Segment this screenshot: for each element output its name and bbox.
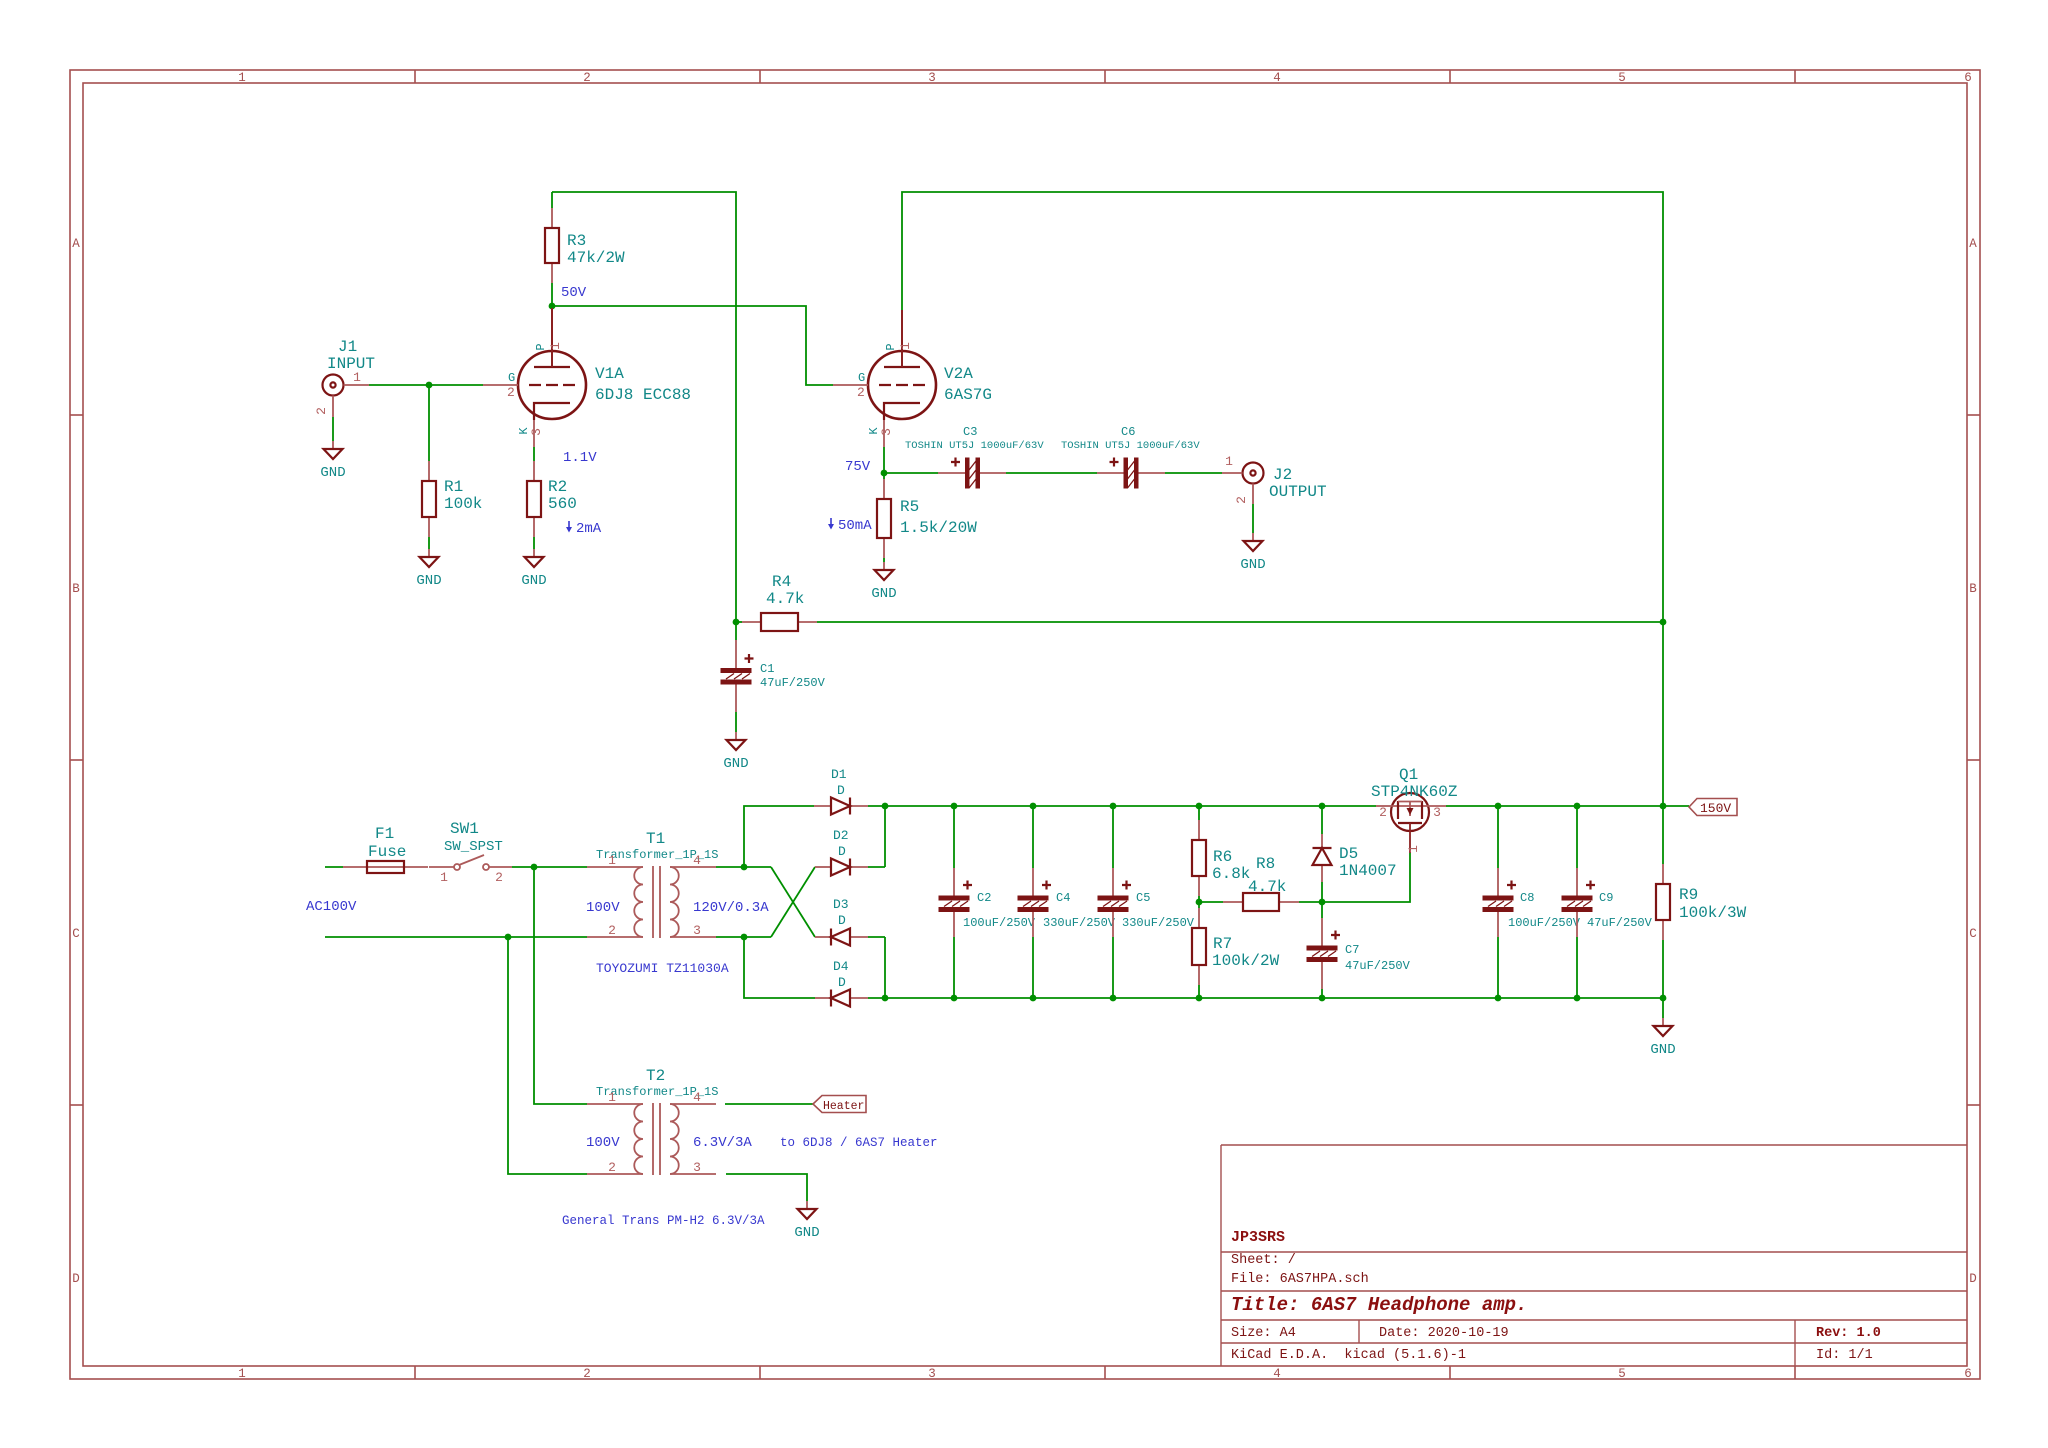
svg-text:5: 5	[1618, 71, 1626, 85]
resistor R9	[1656, 864, 1747, 940]
wire bridge diagonal b	[771, 867, 815, 937]
svg-text:4: 4	[1273, 1367, 1281, 1381]
triode V1A	[483, 308, 691, 447]
resistor R6	[1192, 820, 1250, 896]
capacitor C3	[905, 425, 1044, 489]
capacitor C7	[1307, 918, 1411, 989]
current 2mA annotation	[566, 521, 602, 537]
ground GND C1	[723, 732, 748, 772]
wire AC to T2 primary	[534, 867, 587, 1104]
wire gnd bottom rail	[885, 997, 1663, 999]
svg-text:R7: R7	[1213, 935, 1232, 953]
junction 50V node	[549, 303, 556, 310]
frame column labels bottom	[238, 1367, 1972, 1381]
svg-text:Sheet: /: Sheet: /	[1231, 1253, 1296, 1268]
svg-text:C: C	[1969, 927, 1977, 941]
capacitor C9	[1562, 868, 1653, 937]
svg-text:120V/0.3A: 120V/0.3A	[693, 900, 769, 916]
frame column labels top	[238, 71, 1972, 85]
wire C4 pins	[1032, 806, 1034, 998]
svg-text:100V: 100V	[586, 900, 620, 916]
capacitor C1	[721, 640, 826, 712]
svg-text:J2: J2	[1273, 466, 1292, 484]
frame column ticks bottom	[415, 1366, 1795, 1379]
wire gate node to Q1	[1322, 853, 1410, 902]
junction R7 bottom	[1196, 995, 1203, 1002]
svg-text:SW_SPST: SW_SPST	[444, 839, 503, 855]
svg-text:GND: GND	[416, 573, 441, 589]
wire grid node to R1	[428, 385, 430, 461]
svg-text:J1: J1	[338, 338, 357, 356]
wire J1 to V1A grid	[369, 384, 483, 386]
svg-text:560: 560	[548, 495, 577, 513]
svg-text:3: 3	[693, 1160, 701, 1175]
svg-text:6DJ8 ECC88: 6DJ8 ECC88	[595, 386, 691, 404]
ground GND J1	[320, 441, 345, 481]
svg-text:100k/2W: 100k/2W	[1212, 952, 1280, 970]
svg-text:6AS7G: 6AS7G	[944, 386, 992, 404]
connector J1	[314, 338, 375, 417]
title block box	[1221, 1145, 1967, 1366]
junction C4 bottom	[1030, 995, 1037, 1002]
svg-text:100k/3W: 100k/3W	[1679, 904, 1747, 922]
wire V1A cathode to R2	[533, 447, 535, 461]
junction C7 bottom	[1319, 995, 1326, 1002]
svg-text:330uF/250V: 330uF/250V	[1122, 916, 1195, 930]
svg-text:C1: C1	[760, 662, 774, 676]
junction C9 top	[1574, 803, 1581, 810]
resistor R4	[742, 573, 817, 631]
hierarchical label 150V	[1689, 799, 1737, 817]
wire D3 anode link	[868, 937, 885, 998]
svg-text:R8: R8	[1256, 855, 1275, 873]
svg-text:Size: A4: Size: A4	[1231, 1326, 1296, 1341]
svg-text:6: 6	[1964, 1367, 1972, 1381]
svg-text:B: B	[72, 582, 80, 596]
wire J2 pin2 to gnd	[1252, 504, 1254, 533]
svg-text:A: A	[72, 237, 80, 251]
svg-text:1: 1	[1406, 845, 1421, 853]
wire R2 to gnd	[533, 537, 535, 549]
junction 150V rail R9	[1660, 803, 1667, 810]
svg-text:D3: D3	[833, 897, 849, 912]
junction J1 grid node	[426, 382, 433, 389]
svg-text:4: 4	[693, 853, 701, 868]
svg-text:4: 4	[693, 1090, 701, 1105]
svg-text:V2A: V2A	[944, 365, 973, 383]
svg-text:47k/2W: 47k/2W	[567, 249, 625, 267]
svg-text:R5: R5	[900, 498, 919, 516]
junction C2 bottom	[951, 995, 958, 1002]
svg-text:3: 3	[693, 923, 701, 938]
wire R5 to gnd	[883, 558, 885, 562]
wire J1 pin2 to gnd	[332, 417, 334, 441]
resistor R8	[1223, 855, 1299, 911]
wire B+ top rail	[885, 805, 1376, 807]
wire bridge diagonal a	[771, 867, 815, 937]
wire C8 pins	[1497, 806, 1499, 998]
ground GND R2	[521, 549, 546, 589]
svg-text:2: 2	[507, 385, 515, 400]
wire D5 pins	[1321, 806, 1323, 902]
wire C5 pins	[1112, 806, 1114, 998]
current 50mA annotation	[828, 518, 872, 534]
junction C8 top	[1495, 803, 1502, 810]
svg-text:R3: R3	[567, 232, 586, 250]
svg-text:1: 1	[608, 1090, 616, 1105]
wire 150V rail	[1446, 805, 1689, 807]
resistor R3	[545, 208, 625, 283]
wire T2 pin3 to gnd	[726, 1174, 807, 1201]
svg-text:1N4007: 1N4007	[1339, 862, 1397, 880]
wire T1 pin4 node	[716, 806, 814, 867]
svg-text:D: D	[1969, 1272, 1977, 1286]
junction T1 pin4 node	[741, 864, 748, 871]
fuse F1	[343, 825, 428, 873]
junction SW T1 T2 node	[531, 864, 538, 871]
svg-text:P: P	[534, 343, 548, 350]
svg-text:2: 2	[1379, 805, 1387, 820]
svg-text:1.5k/20W: 1.5k/20W	[900, 519, 977, 537]
svg-text:D: D	[837, 783, 845, 798]
wire R3 top to R4/C1 node	[552, 192, 736, 622]
svg-text:Rev: 1.0: Rev: 1.0	[1816, 1326, 1881, 1341]
frame row labels left	[72, 237, 80, 1286]
svg-text:2: 2	[583, 1367, 591, 1381]
svg-text:1: 1	[548, 342, 563, 350]
svg-text:2: 2	[583, 71, 591, 85]
svg-text:100uF/250V: 100uF/250V	[1508, 916, 1581, 930]
svg-text:AC100V: AC100V	[306, 899, 357, 915]
wire V2A cathode 75V node	[884, 447, 938, 479]
svg-text:STP4NK60Z: STP4NK60Z	[1371, 783, 1458, 801]
svg-text:JP3SRS: JP3SRS	[1231, 1229, 1285, 1246]
svg-text:50mA: 50mA	[838, 518, 872, 534]
svg-text:150V: 150V	[1700, 801, 1731, 816]
wire C1 to gnd	[735, 712, 737, 732]
svg-text:T1: T1	[646, 830, 665, 848]
ground GND T2	[794, 1201, 819, 1241]
svg-text:3: 3	[529, 428, 544, 436]
svg-text:C2: C2	[977, 891, 991, 905]
diode D4	[815, 959, 868, 1007]
connector J2	[1222, 454, 1327, 504]
svg-text:3: 3	[928, 71, 936, 85]
wire R7 bottom	[1198, 985, 1200, 998]
transformer T2	[587, 1067, 718, 1175]
svg-text:INPUT: INPUT	[327, 355, 375, 373]
svg-text:D: D	[838, 975, 846, 990]
capacitor C5	[1098, 868, 1195, 937]
svg-text:V1A: V1A	[595, 365, 624, 383]
junction R6 top	[1196, 803, 1203, 810]
wire C9 pins	[1576, 806, 1578, 998]
resistor R2	[527, 461, 577, 537]
svg-text:C7: C7	[1345, 943, 1359, 957]
svg-text:A: A	[1969, 237, 1977, 251]
diode D2	[815, 828, 868, 876]
wire D1 cathode to rail	[868, 806, 885, 867]
svg-text:P: P	[884, 343, 898, 350]
ground GND R5	[871, 562, 896, 602]
resistor R7	[1192, 908, 1280, 985]
wire C6 to J2	[1165, 472, 1222, 474]
svg-text:C: C	[72, 927, 80, 941]
svg-text:SW1: SW1	[450, 820, 479, 838]
junction C4 top	[1030, 803, 1037, 810]
svg-text:3: 3	[1433, 805, 1441, 820]
svg-text:1: 1	[238, 1367, 246, 1381]
wire R9 bottom	[1662, 940, 1664, 1018]
svg-text:75V: 75V	[845, 459, 871, 475]
svg-text:5: 5	[1618, 1367, 1626, 1381]
capacitor C8	[1483, 868, 1581, 937]
svg-text:B: B	[1969, 582, 1977, 596]
svg-text:C5: C5	[1136, 891, 1150, 905]
ground GND J2	[1240, 533, 1265, 573]
svg-text:2: 2	[1234, 496, 1249, 504]
svg-text:TOYOZUMI TZ11030A: TOYOZUMI TZ11030A	[596, 961, 729, 976]
svg-text:Q1: Q1	[1399, 766, 1418, 784]
junction 75V node	[881, 470, 888, 477]
svg-text:1.1V: 1.1V	[563, 450, 597, 466]
diode D5	[1313, 834, 1397, 882]
wire T1 pin3 node	[716, 937, 815, 998]
svg-text:R9: R9	[1679, 886, 1698, 904]
svg-text:OUTPUT: OUTPUT	[1269, 483, 1327, 501]
svg-text:Fuse: Fuse	[368, 843, 406, 861]
wire C1 top	[735, 622, 737, 640]
hierarchical label Heater	[813, 1096, 866, 1114]
switch SW1	[429, 820, 512, 885]
capacitor C2	[939, 868, 1036, 937]
svg-text:2: 2	[495, 870, 503, 885]
svg-text:3: 3	[928, 1367, 936, 1381]
svg-text:D4: D4	[833, 959, 849, 974]
svg-text:GND: GND	[521, 573, 546, 589]
svg-text:2: 2	[857, 385, 865, 400]
junction R8 D5 C7 node	[1319, 899, 1326, 906]
svg-text:G: G	[508, 371, 515, 385]
svg-text:R2: R2	[548, 478, 567, 496]
svg-text:GND: GND	[871, 586, 896, 602]
svg-text:47uF/250V: 47uF/250V	[1345, 959, 1411, 973]
svg-text:F1: F1	[375, 825, 394, 843]
wire C2 pins	[953, 806, 955, 998]
ground GND R1	[416, 549, 441, 589]
svg-text:2: 2	[314, 407, 329, 415]
svg-text:C8: C8	[1520, 891, 1534, 905]
mosfet Q1	[1371, 766, 1458, 853]
junction R6 R8 node	[1196, 899, 1203, 906]
resistor R5	[877, 479, 977, 558]
svg-text:1: 1	[353, 370, 361, 385]
svg-text:2: 2	[608, 1160, 616, 1175]
svg-text:GND: GND	[794, 1225, 819, 1241]
junction D5 top	[1319, 803, 1326, 810]
svg-text:TOSHIN UT5J 1000uF/63V: TOSHIN UT5J 1000uF/63V	[1061, 440, 1200, 452]
wire R1 to gnd	[428, 537, 430, 549]
svg-text:GND: GND	[320, 465, 345, 481]
junction AC bottom T2 node	[505, 934, 512, 941]
svg-text:GND: GND	[723, 756, 748, 772]
wire C3 to C6	[1006, 472, 1097, 474]
svg-text:Date: 2020-10-19: Date: 2020-10-19	[1379, 1326, 1509, 1341]
junction C5 bottom	[1110, 995, 1117, 1002]
wire T2 pin4 to heater label	[725, 1103, 813, 1105]
svg-text:R1: R1	[444, 478, 463, 496]
junction T1 pin3 node	[741, 934, 748, 941]
svg-text:4: 4	[1273, 71, 1281, 85]
frame row labels right	[1969, 237, 1977, 1286]
svg-text:C4: C4	[1056, 891, 1070, 905]
svg-text:100k: 100k	[444, 495, 482, 513]
frame row ticks left	[70, 415, 83, 1105]
svg-text:6.8k: 6.8k	[1212, 865, 1250, 883]
svg-text:Title: 6AS7 Headphone amp.: Title: 6AS7 Headphone amp.	[1231, 1294, 1527, 1316]
svg-text:D1: D1	[831, 767, 847, 782]
svg-text:R4: R4	[772, 573, 791, 591]
wire R6 pins	[1198, 806, 1200, 908]
diode D1	[814, 767, 868, 815]
transformer T1	[587, 830, 718, 938]
junction R4 C1 node	[733, 619, 740, 626]
svg-text:G: G	[858, 371, 865, 385]
svg-text:100uF/250V: 100uF/250V	[963, 916, 1036, 930]
svg-text:C9: C9	[1599, 891, 1613, 905]
svg-text:330uF/250V: 330uF/250V	[1043, 916, 1116, 930]
svg-text:D: D	[838, 913, 846, 928]
diode D3	[815, 897, 868, 946]
frame row ticks right	[1967, 415, 1980, 1105]
svg-text:Id: 1/1: Id: 1/1	[1816, 1348, 1873, 1363]
svg-text:50V: 50V	[561, 285, 587, 301]
svg-text:R6: R6	[1213, 848, 1232, 866]
ground GND rail	[1650, 1018, 1675, 1058]
capacitor C4	[1018, 868, 1116, 937]
svg-text:1: 1	[608, 853, 616, 868]
junction C5 top	[1110, 803, 1117, 810]
svg-text:D: D	[838, 844, 846, 859]
junction R9 gnd node	[1660, 995, 1667, 1002]
junction D1 D2 cathodes	[882, 803, 889, 810]
junction C9 bottom	[1574, 995, 1581, 1002]
svg-text:47uF/250V: 47uF/250V	[760, 676, 826, 690]
capacitor C6	[1061, 425, 1200, 489]
svg-text:General Trans PM-H2 6.3V/3A: General Trans PM-H2 6.3V/3A	[562, 1214, 765, 1228]
svg-text:D5: D5	[1339, 845, 1358, 863]
svg-text:GND: GND	[1650, 1042, 1675, 1058]
svg-text:3: 3	[879, 428, 894, 436]
svg-text:6: 6	[1964, 71, 1972, 85]
wire 50V node	[552, 283, 833, 385]
svg-text:4.7k: 4.7k	[766, 590, 804, 608]
wire R8 pins	[1199, 901, 1322, 903]
wire C7 pins	[1321, 902, 1323, 998]
svg-text:C3: C3	[963, 425, 977, 439]
svg-text:1: 1	[1225, 454, 1233, 469]
svg-text:T2: T2	[646, 1067, 665, 1085]
junction C2 top	[951, 803, 958, 810]
svg-text:47uF/250V: 47uF/250V	[1587, 916, 1653, 930]
svg-text:2mA: 2mA	[576, 521, 602, 537]
svg-text:C6: C6	[1121, 425, 1135, 439]
svg-text:2: 2	[608, 923, 616, 938]
triode V2A	[833, 310, 992, 447]
svg-text:File: 6AS7HPA.sch: File: 6AS7HPA.sch	[1231, 1272, 1369, 1287]
svg-text:KiCad E.D.A. kicad (5.1.6)-1: KiCad E.D.A. kicad (5.1.6)-1	[1231, 1348, 1466, 1363]
wire R4 node	[736, 621, 1663, 623]
svg-text:1: 1	[440, 870, 448, 885]
svg-text:D: D	[72, 1272, 80, 1286]
svg-text:100V: 100V	[586, 1135, 620, 1151]
resistor R1	[422, 461, 482, 537]
svg-text:GND: GND	[1240, 557, 1265, 573]
wire V2A anode to right rail	[902, 192, 1663, 864]
svg-text:1: 1	[238, 71, 246, 85]
svg-text:Heater: Heater	[823, 1100, 864, 1113]
junction R4 right rail	[1660, 619, 1667, 626]
svg-text:4.7k: 4.7k	[1248, 878, 1286, 896]
wire AC line bottom	[325, 937, 587, 1174]
frame column ticks top	[415, 70, 1795, 83]
junction C8 bottom	[1495, 995, 1502, 1002]
svg-text:TOSHIN UT5J 1000uF/63V: TOSHIN UT5J 1000uF/63V	[905, 440, 1044, 452]
junction D3 D4 anodes	[882, 995, 889, 1002]
wire AC line top	[325, 866, 587, 868]
svg-text:6.3V/3A: 6.3V/3A	[693, 1135, 752, 1151]
svg-text:D2: D2	[833, 828, 849, 843]
svg-text:1: 1	[898, 342, 913, 350]
svg-text:to 6DJ8 / 6AS7 Heater: to 6DJ8 / 6AS7 Heater	[780, 1136, 938, 1150]
